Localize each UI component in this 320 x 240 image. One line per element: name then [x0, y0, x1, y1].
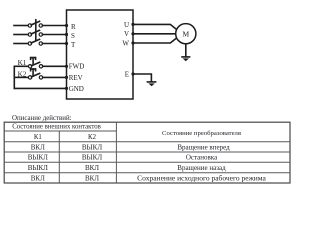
pin T [65, 41, 76, 49]
wire S supply [14, 34, 28, 36]
svg-text:U: U [124, 21, 129, 29]
ground (E) [147, 82, 157, 86]
table row 3 [28, 164, 226, 172]
pin FWD [65, 63, 84, 71]
wire common bus vertical [13, 66, 15, 88]
switch QS gang link [35, 20, 37, 41]
table header K2 [88, 134, 97, 141]
pin V [124, 30, 135, 38]
wire V to motor [133, 33, 176, 35]
svg-text:T: T [71, 41, 76, 49]
ground (motor) [181, 57, 190, 61]
table row line 1 [4, 141, 290, 143]
svg-text:ВЫКЛ: ВЫКЛ [82, 154, 102, 162]
wire bus to K2 [14, 76, 28, 78]
motor M [176, 24, 196, 44]
svg-text:К1: К1 [34, 134, 42, 141]
switch QS pole 2 (S) [28, 30, 42, 36]
svg-text:R: R [71, 23, 76, 31]
switch K1 manual actuator [30, 58, 36, 65]
label K1 [18, 59, 27, 67]
svg-text:Вращение вперед: Вращение вперед [177, 143, 230, 151]
converter box U1 [67, 10, 134, 99]
wire T to box [43, 43, 67, 45]
table header split line [4, 130, 116, 132]
svg-text:Описание действий:: Описание действий: [12, 115, 72, 122]
pin REV [65, 74, 83, 82]
svg-text:REV: REV [69, 74, 83, 82]
table row 2 [28, 154, 218, 162]
svg-text:W: W [122, 39, 129, 47]
svg-text:ВКЛ: ВКЛ [31, 174, 45, 182]
svg-text:GND: GND [69, 85, 84, 93]
pin R [65, 23, 76, 31]
table row 1 [31, 143, 230, 151]
pin U [124, 21, 135, 29]
wire E to ground [133, 74, 151, 81]
wire bus to K1 [14, 65, 28, 67]
switch K1 [28, 62, 42, 68]
table header K1 [34, 134, 42, 141]
table divider K1/K2 [58, 131, 60, 183]
svg-text:ВКЛ: ВКЛ [85, 164, 99, 172]
table divider K2/right column [115, 122, 117, 183]
svg-text:M: M [182, 29, 189, 38]
switch K2 [28, 73, 42, 79]
wire motor to ground [185, 44, 187, 57]
switch QS pole 1 (R) [28, 21, 42, 27]
svg-text:S: S [71, 32, 75, 40]
wire T supply [14, 43, 28, 45]
switch K2 manual actuator [30, 69, 36, 76]
svg-text:FWD: FWD [69, 63, 85, 71]
table row line 2 [4, 151, 290, 153]
table row 4 [31, 174, 267, 183]
svg-text:ВЫКЛ: ВЫКЛ [28, 164, 48, 172]
svg-text:ВЫКЛ: ВЫКЛ [28, 154, 48, 162]
wire K2 to REV [43, 76, 67, 78]
pin GND [65, 85, 84, 93]
wire K1 to FWD [43, 65, 67, 67]
svg-text:Сохранение исходного рабочего: Сохранение исходного рабочего режима [137, 174, 266, 183]
table header: state of external contacts [12, 124, 101, 131]
svg-text:Состояние внешних контактов: Состояние внешних контактов [12, 124, 101, 131]
svg-text:ВКЛ: ВКЛ [31, 143, 45, 151]
pin E [125, 70, 135, 78]
wire R to box [43, 25, 67, 27]
label K2 [18, 70, 27, 78]
pin W [122, 39, 134, 47]
svg-text:V: V [124, 30, 129, 38]
pin S [65, 32, 75, 40]
wire W to motor [133, 38, 177, 43]
table outer border [4, 122, 290, 183]
svg-text:ВКЛ: ВКЛ [85, 174, 99, 182]
svg-text:Состояние преобразователя: Состояние преобразователя [162, 130, 241, 137]
svg-text:ВЫКЛ: ВЫКЛ [82, 143, 102, 151]
table row line 3 [4, 161, 290, 163]
svg-text:Вращение назад: Вращение назад [177, 164, 226, 172]
wire U to motor [133, 24, 177, 29]
wire R supply [14, 25, 28, 27]
svg-text:Остановка: Остановка [186, 154, 218, 162]
table header: state of converter [162, 130, 241, 137]
wire bus to GND [14, 87, 66, 89]
wire S to box [43, 34, 67, 36]
switch QS pole 3 (T) [28, 39, 42, 45]
table title [12, 115, 72, 122]
svg-text:E: E [125, 70, 129, 78]
svg-text:К2: К2 [88, 134, 97, 141]
table row line 4 [4, 172, 290, 174]
